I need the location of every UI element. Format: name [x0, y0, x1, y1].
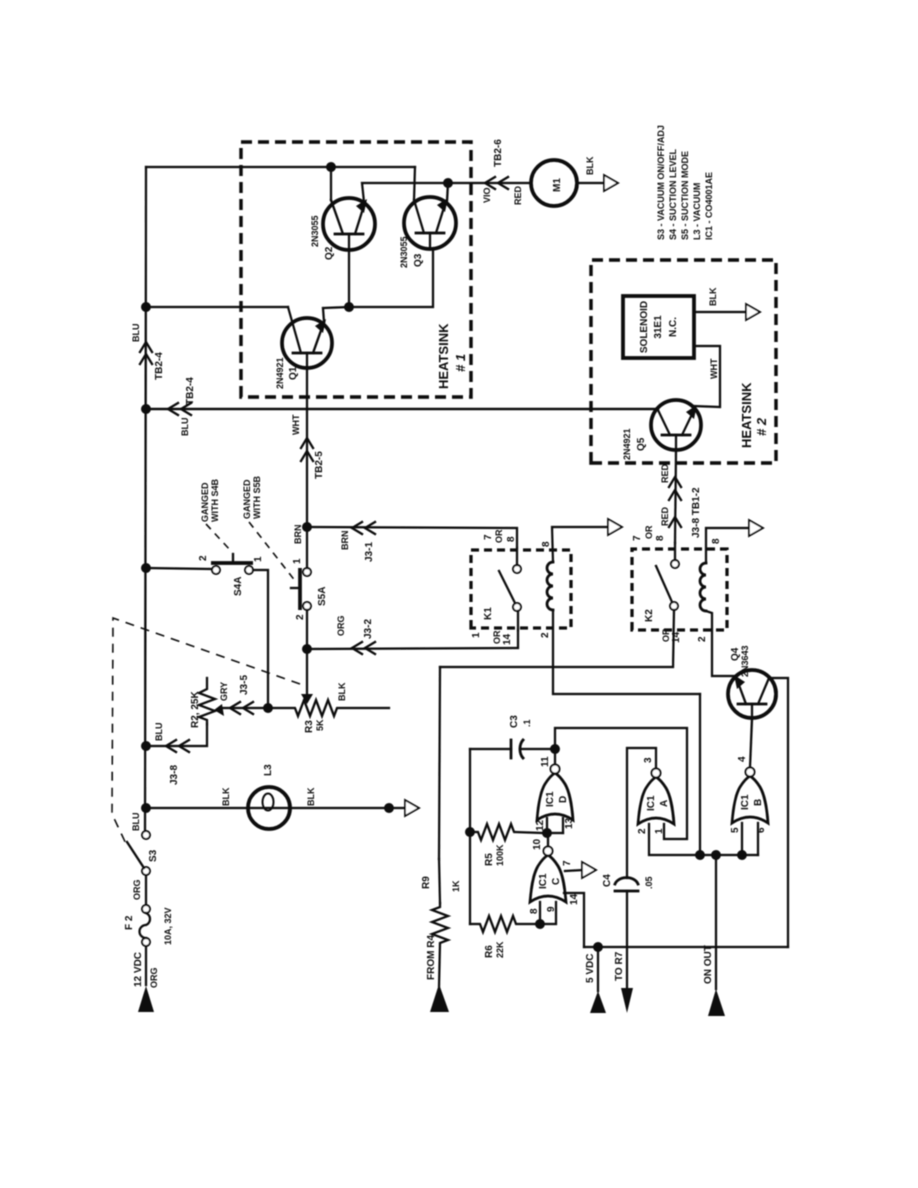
svg-text:K1: K1 [483, 607, 494, 620]
wire: M1 BLK to arrow [577, 182, 606, 184]
resistor R2 25K (pot body) [199, 678, 215, 724]
svg-text:OR: OR [661, 628, 671, 642]
wire: solenoid BLK to arrow [694, 311, 747, 313]
svg-text:ORG: ORG [336, 615, 346, 636]
svg-text:10: 10 [532, 838, 543, 850]
svg-text:R9: R9 [421, 876, 432, 889]
wire: IC1B output to Q4 base [750, 718, 752, 767]
svg-text:J3-8: J3-8 [169, 765, 180, 785]
svg-text:R2, 25K: R2, 25K [190, 691, 201, 728]
junction node: row/ON OUT [711, 850, 721, 860]
lamp L3 [248, 787, 290, 829]
relay K1 box [471, 550, 571, 628]
junction node: R6 / IC1C inputs [535, 919, 545, 929]
svg-text:BRN: BRN [293, 525, 303, 545]
NOR gate IC1 D [537, 765, 573, 821]
svg-text:L3 - VACUUM: L3 - VACUUM [692, 183, 702, 240]
connector J3-8 (chevrons) [669, 517, 681, 527]
svg-text:12: 12 [535, 819, 546, 831]
chassis arrow below L3 [405, 800, 419, 816]
svg-text:8: 8 [506, 536, 517, 542]
svg-text:31E1: 31E1 [653, 315, 664, 339]
wire: Q3 collector to rail line [414, 167, 415, 200]
svg-text:# 2: # 2 [754, 417, 769, 436]
svg-text:GRY: GRY [219, 682, 229, 701]
svg-text:IC1: IC1 [545, 791, 556, 807]
svg-text:1: 1 [253, 556, 264, 562]
svg-text:S4A: S4A [233, 577, 244, 596]
wire: TB2-5 line BRN node to Q1 base [306, 368, 308, 527]
wire: K2 contact to R9 line [440, 610, 674, 667]
motor M1 [531, 160, 577, 206]
svg-text:TO R7: TO R7 [614, 951, 625, 981]
svg-text:22K: 22K [495, 941, 505, 958]
svg-text:2: 2 [540, 632, 551, 638]
svg-text:ORG: ORG [149, 967, 159, 988]
svg-text:6: 6 [756, 827, 767, 833]
svg-text:7: 7 [562, 860, 573, 866]
solenoid box [623, 296, 694, 358]
svg-text:RED: RED [660, 463, 670, 483]
dashed leader GANGED WITH S5B [249, 522, 296, 582]
12 VDC source arrow [138, 986, 154, 1012]
wire: Q2 collector to rail [330, 167, 332, 200]
svg-text:BLU: BLU [131, 324, 141, 343]
svg-text:GANGED: GANGED [242, 479, 252, 519]
svg-text:BLK: BLK [306, 787, 316, 806]
relay K2 box [632, 549, 727, 630]
NOR gate IC1 C [530, 847, 566, 903]
wire: IC1C input ties [540, 902, 556, 924]
connector TB2-4 (chevrons on BLU line) [168, 403, 178, 415]
wire: R2 wiper with arrow to J3-5 node [220, 707, 268, 709]
transistor Q3 2N3055 [404, 197, 456, 249]
resistor R5 100K [470, 824, 543, 840]
svg-text:8: 8 [541, 541, 552, 547]
transistor Q2 2N3055 [323, 198, 375, 250]
svg-text:L3: L3 [263, 764, 274, 776]
wire: J3-1 line to K1 contact [307, 527, 517, 548]
wire: J3-2 ORG line to K1 contact [307, 630, 518, 649]
svg-text:R6: R6 [484, 945, 495, 958]
svg-text:13: 13 [564, 817, 575, 829]
svg-text:GANGED: GANGED [200, 482, 210, 522]
wire: IC1C pin 7 to ground arrow [565, 870, 583, 871]
svg-text:1: 1 [471, 632, 482, 638]
svg-text:9: 9 [546, 906, 557, 912]
svg-text:2: 2 [198, 555, 209, 561]
svg-text:OR: OR [492, 630, 502, 644]
pushbutton S4A [212, 566, 220, 574]
svg-text:OR: OR [494, 529, 504, 543]
svg-text:BLU: BLU [131, 813, 141, 832]
junction node: L3 / R3 return [384, 803, 394, 813]
svg-text:S3: S3 [148, 849, 159, 862]
junction node: row/IC1B pin5 [737, 850, 747, 860]
svg-text:J3-5: J3-5 [239, 675, 250, 695]
wire: ON OUT line [715, 855, 717, 989]
wire: K1 pin2 line to node row [699, 694, 701, 855]
junction node: rail / TB2-4 BLU line [141, 404, 151, 414]
junction node: Q1 emitter / Q2 base [344, 302, 354, 312]
svg-text:10A, 32V: 10A, 32V [163, 907, 173, 945]
svg-text:BLK: BLK [585, 156, 595, 175]
svg-text:BRN: BRN [340, 531, 350, 551]
wire: Q1 emitter to base junction [323, 307, 349, 322]
svg-text:WHT: WHT [291, 414, 301, 435]
svg-text:BLU: BLU [180, 418, 190, 437]
svg-text:HEATSINK: HEATSINK [436, 323, 451, 389]
svg-text:RED: RED [513, 185, 523, 205]
junction node: rail / S4A line [141, 563, 151, 573]
junction node: Q2 collector / rail [326, 162, 336, 172]
svg-text:TB2-4: TB2-4 [185, 377, 196, 405]
NOR gate IC1 A [638, 769, 674, 825]
svg-text:2: 2 [295, 614, 306, 620]
svg-text:IC1: IC1 [538, 873, 549, 889]
mechanical gang dashed link S3 to R3 [112, 618, 300, 848]
svg-text:8: 8 [655, 535, 666, 541]
svg-text:C3: C3 [509, 715, 520, 728]
svg-text:BLK: BLK [708, 287, 718, 306]
svg-text:2: 2 [697, 636, 708, 642]
capacitor C3 .1 [470, 748, 511, 750]
svg-text:S4 - SUCTION LEVEL: S4 - SUCTION LEVEL [668, 148, 678, 240]
wire: Q5 emitter to solenoid WHT [693, 346, 720, 407]
transistor Q4 2N3643 [728, 670, 776, 718]
relay K2 coil [700, 563, 706, 611]
svg-text:B: B [753, 799, 764, 806]
svg-text:100K: 100K [495, 844, 505, 866]
svg-text:BLU: BLU [154, 723, 164, 742]
connector J3-5 (chevrons) [230, 702, 240, 714]
svg-text:14: 14 [502, 633, 513, 645]
wire: Q2 emitter to motor line [362, 183, 531, 202]
svg-text:R3: R3 [304, 720, 315, 733]
pushbutton S5A [303, 602, 311, 610]
wire: R5/R6/C3 junction line [469, 749, 471, 924]
wire: Q1 collector to rail [146, 306, 288, 308]
svg-text:WITH S4B: WITH S4B [210, 478, 220, 522]
wire: Q2 base [348, 250, 350, 307]
dashed leader GANGED WITH S4B [206, 524, 231, 551]
wire: J3-8 line from rail to R2 [146, 724, 207, 746]
wire: IC1A output pin3 to C4 [627, 748, 656, 878]
wire: IC1A pin2 to common node row [649, 824, 758, 855]
transistor Q1 2N4921 [282, 318, 332, 368]
junction node: 5VDC tap [593, 942, 603, 952]
svg-text:J3-2: J3-2 [363, 619, 374, 639]
wire: rail top corner down to Q3 collector line [146, 166, 415, 168]
junction node: Q3 emitter / motor line [443, 178, 453, 188]
wire: R9 line (FROM R4 to K2 contact) [439, 667, 440, 859]
wire: IC1D output to C3 node [554, 749, 556, 764]
svg-text:A: A [659, 800, 670, 807]
svg-text:1: 1 [292, 558, 303, 564]
wire: IC1B inputs from node row [741, 823, 743, 855]
svg-text:WHT: WHT [709, 358, 719, 379]
svg-text:S5 - SUCTION MODE: S5 - SUCTION MODE [680, 151, 690, 240]
wire: K2 coil pin 2 to Q4 emitter [706, 611, 735, 676]
svg-text:D: D [558, 796, 569, 803]
relay K1 contact [513, 603, 521, 611]
connector J3-8 (chevrons) [166, 740, 176, 752]
svg-text:7: 7 [483, 534, 494, 540]
wire: +12V main rail [145, 946, 147, 985]
svg-text:IC1: IC1 [740, 794, 751, 810]
svg-text:C: C [551, 878, 562, 885]
5 VDC source arrow [597, 947, 599, 991]
svg-text:14: 14 [569, 893, 580, 905]
svg-text:.1: .1 [522, 719, 532, 727]
svg-text:C4: C4 [602, 874, 613, 887]
junction node: rail / J3-8 line [141, 741, 151, 751]
svg-text:5K: 5K [315, 719, 325, 731]
svg-text:BLK: BLK [337, 682, 347, 701]
junction node: rail / Q1 collector [141, 302, 151, 312]
svg-text:8: 8 [711, 538, 722, 544]
heatsink #1 dashed box [241, 142, 471, 397]
svg-text:5 VDC: 5 VDC [585, 954, 596, 983]
switch S3 [142, 867, 150, 875]
svg-text:ON OUT: ON OUT [703, 945, 714, 984]
svg-text:TB2-5: TB2-5 [314, 451, 325, 479]
svg-text:.05: .05 [644, 876, 654, 889]
svg-text:OR: OR [644, 525, 654, 539]
svg-text:RED: RED [660, 506, 670, 526]
svg-text:2N3643: 2N3643 [740, 645, 750, 677]
wire: 5VDC rail vertical [584, 946, 788, 948]
svg-text:12 VDC: 12 VDC [133, 952, 144, 987]
svg-text:R5: R5 [484, 853, 495, 866]
wire: C3 node to IC1A pin1 [555, 728, 687, 839]
wire: K1 coil pin 8 to arrow [552, 527, 610, 562]
junction node: rail / L3 line [141, 803, 151, 813]
svg-text:J3-1: J3-1 [364, 542, 375, 562]
junction node: R5 / IC1D inputs [542, 828, 552, 838]
TO R7 arrow [621, 988, 633, 1013]
capacitor C4 .05 [615, 878, 638, 884]
resistor R3 5K [268, 700, 389, 716]
junction node: ORG / R3 wiper [302, 644, 312, 654]
transistor Q5 2N4921 [651, 400, 701, 450]
svg-text:IC1: IC1 [646, 795, 657, 811]
svg-text:M1: M1 [552, 178, 563, 192]
svg-text:7: 7 [632, 535, 643, 541]
wire: IC1C output to R5 bottom (pins 10-12/13) [547, 833, 549, 846]
fuse F2 [142, 938, 150, 946]
svg-text:TB2-6: TB2-6 [493, 139, 504, 167]
svg-text:BLK: BLK [221, 787, 231, 806]
svg-text:5: 5 [730, 827, 741, 833]
wire: IC1C pin 14 to 5VDC line [564, 893, 584, 947]
svg-text:F 2: F 2 [124, 915, 135, 930]
wire: Q5 base to K2 contact with connectors [675, 450, 676, 543]
NOR gate IC1 B [732, 768, 768, 824]
wire: TB2-4 BLU supply line to Q5 collector [146, 408, 658, 410]
svg-text:4: 4 [737, 756, 748, 762]
svg-text:Q3: Q3 [413, 253, 424, 267]
svg-text:2N4921: 2N4921 [622, 428, 632, 460]
svg-text:J3-8 TB1-2: J3-8 TB1-2 [691, 487, 702, 538]
svg-text:Q1: Q1 [288, 366, 299, 380]
svg-text:HEATSINK: HEATSINK [739, 382, 754, 448]
svg-text:1K: 1K [451, 880, 461, 892]
svg-text:S5A: S5A [317, 587, 328, 606]
svg-text:11: 11 [540, 756, 551, 767]
wire: S4A pin1 down to J3-5 node [253, 570, 268, 708]
connector J3-1 (chevrons) [352, 522, 362, 534]
wire: K1 coil pin 2 to oscillator node [553, 610, 700, 694]
svg-text:2N3055: 2N3055 [310, 215, 320, 247]
relay K1 coil [547, 562, 553, 610]
resistor R6 22K [470, 916, 536, 932]
heatsink #2 dashed box [591, 260, 776, 463]
connector TB2-4 on rail (chevrons) [140, 354, 152, 364]
junction node: C3 / IC1D output [550, 744, 560, 754]
svg-text:3: 3 [643, 757, 654, 763]
wire: K2 coil pin 8 to arrow [706, 528, 749, 563]
svg-text:Q2: Q2 [324, 246, 335, 260]
svg-text:2N4921: 2N4921 [275, 357, 285, 389]
junction node: BRN / J3-1 [302, 522, 312, 532]
svg-text:1: 1 [654, 828, 665, 834]
svg-text:Q5: Q5 [636, 437, 647, 451]
FROM R4 source arrow [430, 984, 449, 1012]
svg-text:2: 2 [637, 828, 648, 834]
svg-text:VIO: VIO [482, 187, 492, 203]
junction node: wiper / S4A / R3 [263, 703, 273, 713]
junction node: row/K1 line [695, 850, 705, 860]
wire: base junction to Q3 base [349, 249, 433, 307]
wire: S4A branch from rail [146, 568, 212, 569]
svg-text:TB2-4: TB2-4 [154, 352, 165, 380]
junction node: R5 top [465, 827, 475, 837]
svg-text:8: 8 [529, 908, 540, 914]
svg-text:N.C.: N.C. [668, 317, 679, 337]
svg-text:# 1: # 1 [453, 354, 468, 372]
connector TB1-2 (chevrons) [669, 490, 681, 500]
svg-text:SOLENOID: SOLENOID [639, 301, 650, 353]
relay K2 contact [670, 602, 678, 610]
wire: R3 wiper arrow from S5A/ORG node [306, 649, 308, 697]
resistor R9 1K [439, 859, 440, 903]
wire: Q3 emitter to motor line [447, 183, 448, 201]
svg-text:K2: K2 [644, 609, 655, 622]
svg-text:IC1 - CO4001AE: IC1 - CO4001AE [704, 172, 714, 240]
wire: S5A to ORG node [306, 610, 308, 649]
wire: IC1D inputs [543, 818, 547, 833]
connector TB2-6 (chevrons on VIO/RED wire) [485, 177, 495, 189]
connector TB2-5 (chevrons) [301, 451, 313, 461]
svg-text:2N3055: 2N3055 [399, 236, 409, 268]
svg-text:WITH S5B: WITH S5B [252, 475, 262, 519]
connector J3-2 (chevrons) [352, 642, 362, 654]
wire: L3 branch [146, 807, 405, 809]
svg-text:FROM R4: FROM R4 [426, 935, 437, 980]
svg-text:S3 - VACUUM ON/OFF/ADJ: S3 - VACUUM ON/OFF/ADJ [656, 125, 666, 240]
wire: S5A to BRN node [306, 527, 308, 568]
wire: Q4 collector to 5VDC rail [769, 678, 788, 947]
svg-text:ORG: ORG [132, 879, 142, 900]
wire: Q5 collector to BLU line [146, 408, 658, 410]
